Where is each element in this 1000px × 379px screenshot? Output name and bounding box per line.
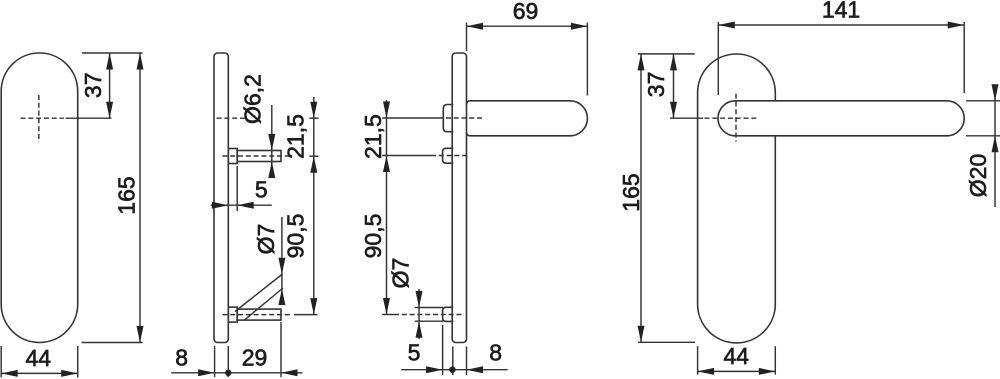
extension line 69 left (466, 23, 468, 52)
plate outline (1, 53, 78, 343)
arrow up (137, 53, 144, 70)
bottom screw centreline (222, 314, 291, 316)
svg-text:Ø6,2: Ø6,2 (240, 74, 266, 124)
arrow down (416, 291, 423, 308)
junction dot (449, 367, 455, 373)
extension line bottom (82, 342, 143, 344)
arrow left (467, 23, 484, 30)
arrow up (992, 136, 999, 153)
extension line from cross to 37 dim (670, 117, 703, 119)
bottom screw centreline dashed (394, 314, 462, 316)
oblique extension line 1 (235, 274, 283, 312)
arrow left (237, 202, 254, 209)
svg-text:29: 29 (242, 345, 268, 371)
dimension line D7 (281, 217, 283, 303)
top screw head front (443, 148, 454, 163)
extension line 69 right (586, 23, 588, 96)
extension line top (82, 52, 143, 54)
svg-text:5: 5 (255, 176, 268, 202)
oblique extension line 2 (245, 288, 284, 320)
arrow right (571, 23, 588, 30)
svg-text:21,5: 21,5 (283, 114, 309, 159)
arrow left (467, 366, 484, 373)
svg-text:44: 44 (26, 345, 52, 371)
bottom screw shaft (237, 309, 281, 320)
dimension 37 line (673, 54, 675, 118)
svg-text:90,5: 90,5 (283, 214, 309, 259)
arrow left (1, 370, 18, 377)
bottom screw head (228, 307, 237, 322)
top screw shaft (237, 151, 281, 162)
dimension 141 line (718, 24, 964, 26)
arrow left (718, 22, 735, 29)
arrow down (310, 102, 317, 119)
dimension line D7 (418, 289, 420, 339)
screw centreline dashed (431, 155, 468, 157)
svg-text:44: 44 (724, 343, 750, 369)
arrow up (268, 162, 275, 179)
tick at screw level (309, 155, 318, 157)
D20 extension line top (966, 100, 1000, 102)
extension line 44 right (774, 346, 776, 374)
arrow up (106, 53, 113, 70)
svg-text:90,5: 90,5 (360, 214, 386, 259)
centre cross vertical (735, 94, 737, 142)
extension line screw tip (280, 322, 282, 377)
dimension 8 and 29 line (171, 372, 302, 374)
extension line below plate left (214, 346, 216, 377)
svg-text:69: 69 (513, 0, 539, 24)
arrow right (759, 368, 776, 375)
arrow down (106, 102, 113, 119)
arrow up (670, 54, 677, 71)
plate outline (452, 53, 466, 343)
extension line screw head face (236, 166, 238, 211)
D7 extension line bottom (415, 320, 443, 322)
arrow up (383, 156, 390, 173)
arrow right (212, 202, 229, 209)
centre cross horizontal (21, 117, 64, 119)
extension line below plate right (466, 347, 468, 376)
top screw centreline (222, 155, 291, 157)
arrow up (416, 321, 423, 338)
arrow right (61, 370, 77, 377)
centre cross horizontal (705, 117, 758, 119)
plate outline (698, 54, 776, 343)
lever collar (443, 105, 453, 132)
arrow right (198, 369, 215, 376)
svg-text:37: 37 (80, 73, 106, 99)
arrow down (383, 298, 390, 315)
svg-text:Ø7: Ø7 (388, 258, 414, 289)
extension line collar face (442, 325, 444, 375)
lever grip (718, 101, 964, 136)
extension line 141 right (963, 22, 965, 93)
D7 extension line top (415, 307, 443, 309)
extension line 44 right (77, 346, 79, 378)
arrow left (698, 368, 715, 375)
arrow up (278, 289, 285, 306)
dimension 5 and 8 line (401, 369, 508, 371)
arrow right (426, 366, 443, 373)
arrow down (638, 326, 645, 343)
dimension 21,5 and 90,5 line (386, 100, 388, 315)
arrow down (137, 326, 144, 343)
spindle centreline (217, 117, 248, 119)
svg-text:37: 37 (643, 72, 669, 98)
svg-text:Ø7: Ø7 (253, 224, 279, 255)
extension line top (638, 53, 695, 55)
extension line 141 left (717, 22, 719, 95)
lever grip (467, 101, 588, 136)
dimension 37 line (109, 53, 111, 118)
centre cross vertical (38, 95, 40, 142)
dimension 44 line (698, 370, 776, 372)
extension line 44 left (0, 346, 2, 378)
bottom screw head front (443, 307, 454, 321)
svg-text:165: 165 (113, 176, 139, 214)
arrow down (992, 84, 999, 101)
svg-text:Ø20: Ø20 (965, 154, 991, 197)
plate outline (214, 53, 228, 343)
screw centreline solid extension (382, 155, 431, 157)
extension line 44 left (697, 346, 699, 374)
arrow up (638, 54, 645, 71)
svg-text:141: 141 (822, 0, 860, 23)
extension line bottom (638, 341, 695, 343)
arrow down (310, 298, 317, 315)
arrow up (310, 156, 317, 173)
dimension 21,5 and 90,5 line (313, 97, 315, 315)
D20 extension line bottom (966, 135, 1000, 137)
dimension 69 line (467, 25, 588, 27)
extension line below plate left (452, 347, 454, 376)
svg-text:5: 5 (408, 340, 421, 366)
spindle centreline dashed (438, 117, 484, 119)
tick at spindle level (309, 117, 318, 119)
svg-text:165: 165 (618, 173, 644, 211)
spindle centreline solid extension (382, 117, 438, 119)
svg-text:8: 8 (175, 345, 188, 371)
arrow down (670, 102, 677, 119)
dimension line D6,2 (271, 105, 273, 178)
dimension 5 line (211, 204, 272, 206)
arrow left (281, 369, 298, 376)
dimension 165 line (139, 53, 141, 343)
arrow down (383, 102, 390, 119)
arrow down (278, 258, 285, 275)
extension line below plate right (227, 346, 229, 377)
arrow right (948, 22, 965, 29)
junction dot (225, 370, 231, 376)
tick at bottom screw level (294, 314, 318, 316)
dimension line D20 (994, 87, 996, 207)
extension line from cross to 37 dim (66, 117, 112, 119)
top screw head (228, 149, 237, 164)
svg-text:21,5: 21,5 (360, 114, 386, 159)
arrow down (268, 134, 275, 151)
dimension 44 line (1, 372, 78, 374)
svg-text:8: 8 (489, 340, 502, 366)
bottom screw centreline solid (382, 314, 394, 316)
dimension 165 line (640, 54, 642, 342)
